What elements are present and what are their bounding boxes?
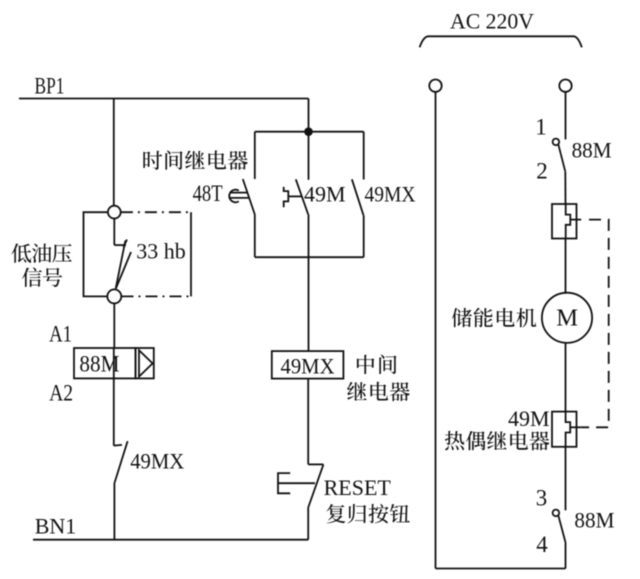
svg-text:BP1: BP1 — [35, 74, 65, 99]
motor M (storage motor) — [542, 293, 592, 343]
svg-text:49MX: 49MX — [130, 449, 184, 474]
wire left side of motor loop — [435, 92, 437, 569]
svg-text:88M: 88M — [572, 138, 612, 163]
label 中间 — [357, 355, 375, 374]
contact 49MX (self-hold) — [363, 132, 365, 180]
wire terminal to contact 88M(1-2) — [565, 92, 567, 139]
wire parallel-group bottom rail — [255, 256, 364, 258]
svg-text:49M: 49M — [304, 182, 346, 207]
node junction dot — [304, 127, 313, 136]
contact 33 hb blade — [114, 244, 126, 246]
label 复归按钮 — [326, 504, 345, 523]
48T delay symbol (arc with bars) — [229, 190, 239, 203]
wire BN1 bus — [33, 539, 308, 541]
mechanical linkage (dashed) — [581, 220, 609, 428]
49M actuator symbol — [284, 187, 289, 207]
wire heater to motor — [565, 239, 567, 294]
wire coil 49MX to RESET button — [307, 379, 309, 465]
svg-text:BN1: BN1 — [35, 514, 77, 539]
wire motor to thermal relay — [565, 342, 567, 411]
thermal relay 49M heater box — [552, 412, 577, 447]
node bottom terminal of pressure switch box — [107, 289, 121, 303]
svg-text:48T: 48T — [193, 181, 223, 206]
pushbutton operator — [278, 473, 290, 493]
contact 48T (time relay, delayed) — [254, 132, 256, 179]
coil 49MX (intermediate relay) — [272, 351, 344, 379]
contact 88M (1-2) — [553, 139, 560, 146]
wire contact to BN1 bus — [113, 483, 115, 540]
wire BP1 to junction — [308, 99, 310, 132]
svg-text:A1: A1 — [49, 322, 72, 347]
svg-text:RESET: RESET — [324, 475, 392, 500]
svg-text:4: 4 — [536, 532, 548, 557]
wire RESET to BN1 bus — [307, 507, 309, 540]
svg-text:AC 220V: AC 220V — [450, 9, 534, 34]
pressure switch enclosure (dash-dot boundary) — [84, 212, 108, 296]
svg-text:M: M — [556, 305, 578, 332]
wire left branch upper — [113, 99, 115, 206]
svg-text:1: 1 — [535, 115, 547, 140]
svg-text:3: 3 — [536, 486, 548, 511]
label 时间继电器 — [143, 151, 162, 170]
label 热偶继电器 — [445, 431, 464, 450]
terminal left — [429, 80, 441, 92]
bracket under AC 220V — [420, 36, 582, 47]
coil 88M (relay coil with operator) — [74, 348, 136, 378]
svg-text:49M: 49M — [508, 406, 550, 431]
wire parallel-group top rail — [255, 131, 364, 133]
wire contact to heater — [564, 171, 566, 204]
wire thermal relay to contact 88M(3-4) — [565, 447, 567, 511]
wire into contact 33hb — [113, 219, 115, 246]
svg-text:2: 2 — [536, 159, 548, 184]
svg-text:33 hb: 33 hb — [136, 239, 186, 264]
svg-text:49MX: 49MX — [281, 354, 335, 379]
svg-text:49MX: 49MX — [365, 182, 416, 207]
contact 88M (3-4) — [553, 510, 560, 517]
wire coil to contact 49MX — [113, 378, 115, 445]
wire bottom circle to coil 88M — [113, 303, 115, 348]
thermal element 88M-side box — [552, 204, 577, 239]
wire coil 88M through-wire — [113, 348, 115, 378]
label 信号 — [22, 267, 42, 287]
contact 49M (thermal relay contact) — [308, 132, 310, 180]
terminal right — [559, 80, 571, 92]
label 继电器 — [347, 382, 367, 401]
label 低油压 — [11, 243, 31, 262]
node top terminal of pressure switch box — [108, 206, 121, 219]
pushbutton RESET contact — [308, 463, 323, 465]
wire bottom of motor loop — [436, 568, 566, 570]
wire contact to bottom — [565, 542, 567, 569]
wire BP1 bus — [19, 98, 309, 100]
svg-text:88M: 88M — [574, 508, 614, 533]
label 储能电机 — [452, 308, 472, 327]
contact 49MX (left branch) — [114, 444, 122, 447]
svg-text:A2: A2 — [49, 381, 73, 406]
